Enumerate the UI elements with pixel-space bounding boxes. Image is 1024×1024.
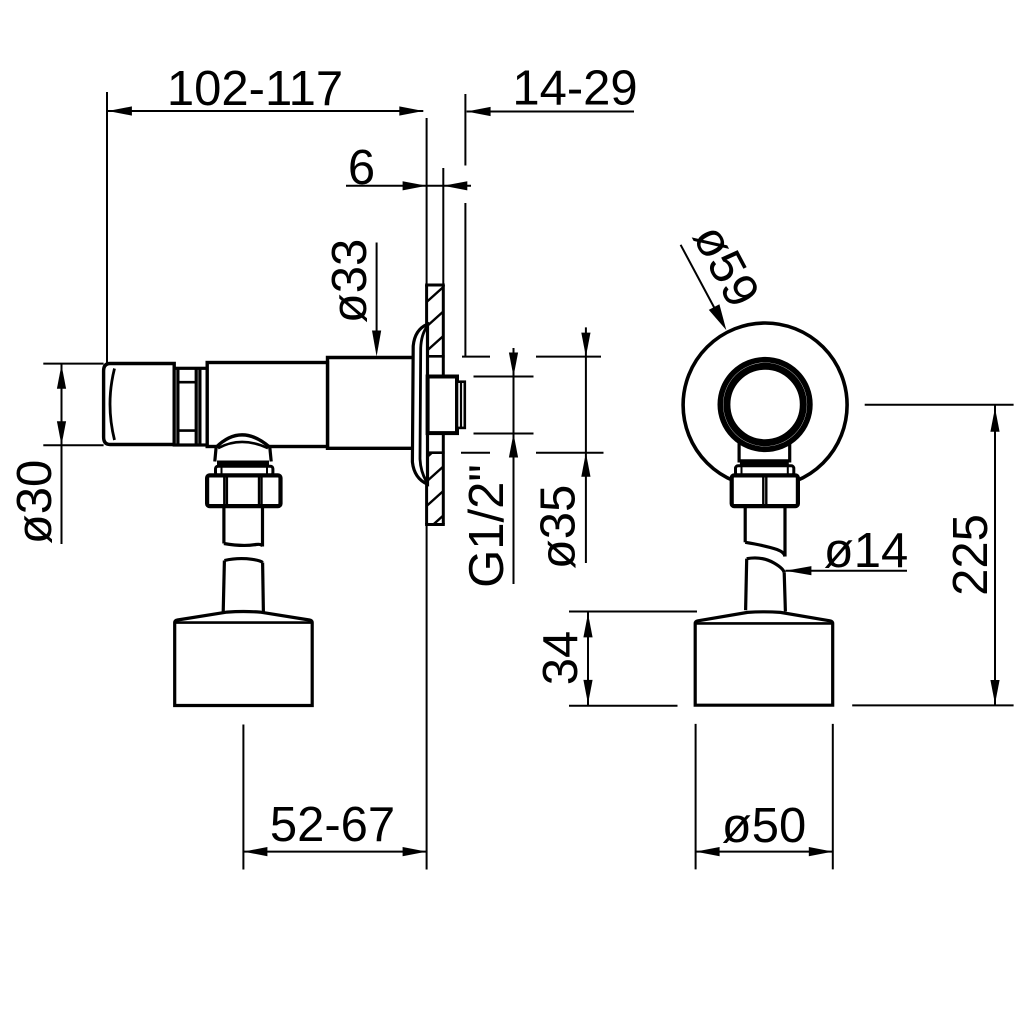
dimension line 102-117 bbox=[108, 110, 423, 112]
spout cylinder (left view) bbox=[175, 612, 313, 706]
ø30 dimension bbox=[43, 364, 103, 544]
elbow dome bbox=[215, 435, 272, 462]
outlet pipe upper segment (left view) bbox=[224, 506, 263, 546]
collar right view bbox=[736, 466, 794, 475]
seal band (thick) bbox=[217, 461, 269, 467]
outer circle ø59 bbox=[683, 323, 847, 487]
washer ring bbox=[216, 466, 273, 475]
valve cap (ø30 handle) bbox=[104, 364, 175, 445]
225 dimension bbox=[852, 405, 1013, 706]
ring circles bbox=[720, 360, 810, 450]
arrows top dims bbox=[108, 106, 491, 190]
svg-text:102-117: 102-117 bbox=[167, 62, 343, 116]
knurled adjuster section bbox=[174, 368, 207, 445]
ø50 dimension bbox=[696, 724, 833, 870]
ø14 label + leader bbox=[785, 566, 907, 575]
svg-text:6: 6 bbox=[348, 141, 375, 195]
svg-text:ø35: ø35 bbox=[532, 485, 586, 569]
52-67 dimension bbox=[243, 525, 426, 870]
extension line wall back face top bbox=[442, 168, 444, 285]
extension line wall front face top bbox=[426, 118, 428, 285]
wall hatch section bbox=[427, 287, 444, 531]
flange / escutcheon bbox=[412, 324, 427, 484]
dimension line 14-29 bbox=[467, 111, 634, 113]
svg-text:52-67: 52-67 bbox=[270, 798, 395, 852]
ø35 dimension bbox=[461, 327, 604, 563]
G1/2 dimension bbox=[474, 348, 534, 584]
pipe upper segment (right view) bbox=[745, 506, 785, 556]
valve body large section (ø33) bbox=[328, 358, 415, 449]
pipe lower segment + break (right view) bbox=[746, 558, 786, 611]
dimension line 6 bbox=[346, 185, 427, 187]
outlet pipe lower segment + break (left view) bbox=[223, 559, 263, 613]
svg-text:ø50: ø50 bbox=[722, 799, 806, 853]
inlet neck behind ring bbox=[739, 430, 790, 461]
threaded nipple G1/2 bbox=[428, 377, 465, 434]
main body tube bbox=[207, 363, 327, 447]
extension line left of cap bbox=[106, 92, 108, 364]
34 dimension bbox=[569, 612, 697, 706]
extension line 14-29 right bbox=[464, 94, 466, 166]
seal band right view (thick) bbox=[740, 460, 789, 466]
svg-text:ø33: ø33 bbox=[323, 239, 377, 323]
spout cylinder (right view) bbox=[695, 612, 833, 705]
hex nut (side view) bbox=[207, 475, 280, 506]
svg-text:G1/2": G1/2" bbox=[460, 464, 514, 588]
svg-text:ø14: ø14 bbox=[824, 524, 908, 578]
svg-text:225: 225 bbox=[944, 514, 998, 596]
svg-text:34: 34 bbox=[534, 631, 588, 686]
svg-text:ø30: ø30 bbox=[8, 460, 62, 544]
svg-text:14-29: 14-29 bbox=[512, 62, 637, 116]
hex nut right view bbox=[732, 475, 798, 506]
ø59 label + leader bbox=[681, 245, 727, 330]
wall outline with mounting hole edges bbox=[425, 285, 445, 525]
